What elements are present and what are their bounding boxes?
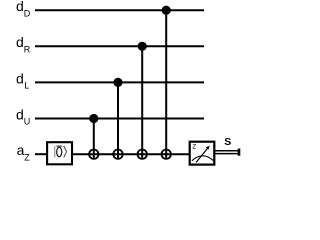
svg-text:d: d: [16, 34, 24, 50]
svg-text:d: d: [16, 0, 24, 14]
svg-text:Z: Z: [192, 144, 196, 151]
svg-text:S: S: [224, 136, 231, 148]
svg-text:Z: Z: [24, 152, 30, 162]
svg-text:d: d: [16, 70, 24, 86]
svg-text:L: L: [24, 81, 29, 91]
svg-text:D: D: [24, 8, 31, 18]
svg-text:U: U: [24, 117, 31, 127]
svg-text:d: d: [16, 106, 24, 122]
svg-text:R: R: [24, 44, 31, 54]
